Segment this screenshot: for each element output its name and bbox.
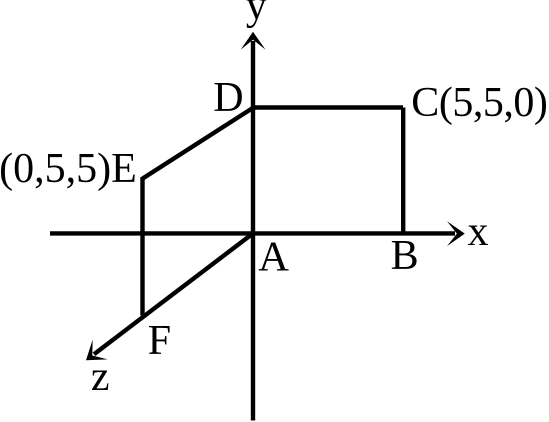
segment C-B [401, 108, 405, 234]
svg-text:F: F [148, 318, 171, 364]
svg-text:y: y [246, 0, 267, 29]
segment E-F [140, 177, 144, 316]
z-axis [94, 233, 253, 354]
svg-text:B: B [391, 233, 419, 279]
svg-text:(0,5,5)E: (0,5,5)E [0, 146, 137, 192]
svg-text:C(5,5,0): C(5,5,0) [411, 80, 548, 126]
y-axis [251, 41, 255, 421]
svg-text:D: D [213, 75, 243, 121]
y-axis arrowhead [241, 32, 266, 50]
z-axis arrowhead [78, 340, 107, 371]
segment D-C [253, 105, 403, 109]
svg-text:z: z [91, 354, 110, 400]
x-axis arrowhead [447, 221, 465, 246]
svg-text:A: A [258, 233, 289, 280]
segment D-E [143, 108, 254, 179]
x-axis [50, 231, 455, 235]
svg-text:x: x [468, 209, 489, 255]
